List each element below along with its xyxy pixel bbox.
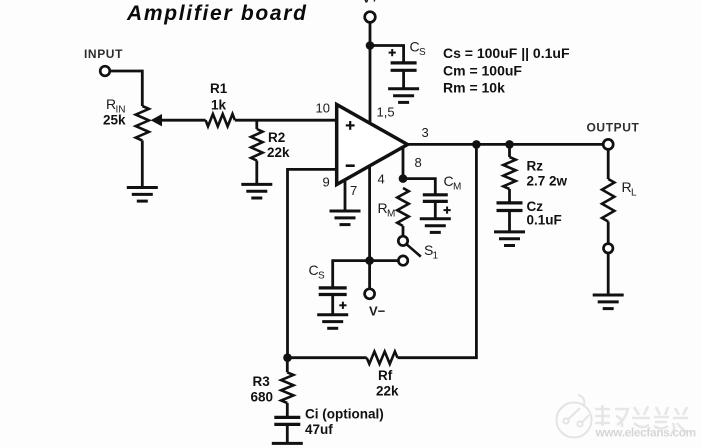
- capacitor Cz: [497, 203, 523, 211]
- potentiometer RIN body: [136, 106, 149, 141]
- junction R3: [283, 353, 292, 362]
- svg-text:R2: R2: [268, 130, 285, 145]
- svg-text:1k: 1k: [211, 98, 227, 113]
- svg-text:4: 4: [378, 172, 385, 187]
- switch S1 blade: [407, 244, 421, 256]
- svg-text:R1: R1: [210, 81, 228, 96]
- junction pin8 node: [399, 174, 408, 183]
- wire CS bottom to ground: [331, 295, 334, 315]
- watermark chinese text (approx strokes): [595, 405, 688, 434]
- wire junction to CS top: [370, 46, 404, 63]
- terminal OUTPUT: [603, 139, 613, 149]
- svg-text:Rm = 10k: Rm = 10k: [443, 80, 505, 96]
- wire R1 to opamp pin10: [235, 119, 337, 122]
- capacitor CM: [423, 195, 448, 202]
- capacitor CS (bottom): [319, 288, 347, 295]
- ground under RIN: [127, 188, 158, 202]
- resistor R1 body: [206, 114, 235, 126]
- resistor R3 body: [281, 372, 293, 403]
- ground under CS bottom: [317, 315, 348, 329]
- wire pin8 down: [402, 147, 405, 179]
- svg-text:8: 8: [415, 155, 422, 170]
- junction V+ / CS: [366, 41, 375, 50]
- wire feedback bottom left: [288, 356, 367, 359]
- svg-text:10: 10: [316, 101, 330, 116]
- svg-text:S: S: [318, 271, 325, 282]
- op-amp U1 body: [337, 105, 408, 185]
- terminal RL bottom: [604, 244, 613, 253]
- svg-text:L: L: [631, 188, 637, 199]
- resistor RL body: [602, 179, 614, 222]
- resistor Rz body: [503, 157, 515, 189]
- svg-text:www.elecfans.com: www.elecfans.com: [595, 426, 696, 440]
- svg-text:R3: R3: [253, 374, 271, 389]
- wire pin8 node to CM: [403, 179, 435, 195]
- wire node to CS bottom: [333, 261, 370, 288]
- ground under RL: [593, 295, 624, 309]
- wire RM to switch: [402, 226, 405, 236]
- svg-text:Cm = 100uF: Cm = 100uF: [443, 63, 522, 79]
- ground under CM: [420, 219, 451, 233]
- CM plus mark: [444, 207, 451, 214]
- ground under Ci (clipped): [272, 442, 303, 445]
- resistor R2 body: [251, 129, 263, 161]
- wire output to RL: [607, 149, 610, 179]
- svg-text:Ci (optional): Ci (optional): [305, 407, 384, 422]
- svg-text:S: S: [419, 47, 426, 58]
- ground under CS top: [388, 89, 419, 103]
- svg-text:Rf: Rf: [378, 368, 393, 383]
- wire Rz top: [508, 144, 511, 157]
- svg-text:22k: 22k: [267, 145, 290, 160]
- svg-text:M: M: [387, 209, 395, 220]
- wire pin7 to ground: [344, 180, 347, 211]
- svg-text:3: 3: [422, 125, 429, 140]
- switch S1 top contact: [398, 236, 407, 245]
- ground under R2: [241, 184, 272, 198]
- wire R2 to ground: [255, 161, 258, 185]
- wire CS to ground: [402, 70, 405, 89]
- svg-text:Amplifier board: Amplifier board: [126, 2, 308, 25]
- wire terminal to ground: [607, 253, 610, 295]
- wire R3 to Ci: [286, 403, 289, 417]
- svg-text:Rz: Rz: [527, 159, 544, 174]
- svg-text:47uf: 47uf: [305, 422, 333, 437]
- svg-text:0.1uF: 0.1uF: [527, 213, 562, 228]
- svg-text:INPUT: INPUT: [84, 47, 123, 61]
- potentiometer RIN wiper arrow: [151, 114, 162, 126]
- svg-text:9: 9: [323, 175, 330, 190]
- svg-text:M: M: [453, 182, 461, 193]
- wire RIN to ground: [141, 141, 144, 188]
- wire pin4 down: [368, 166, 371, 289]
- ground under pin 7: [330, 211, 361, 225]
- wire node to R2: [255, 120, 258, 129]
- wire feedback bottom right: [398, 144, 477, 357]
- CS bottom plus mark: [339, 302, 346, 309]
- wire CM to ground: [434, 201, 437, 218]
- svg-text:V−: V−: [369, 304, 386, 319]
- wire opamp output pin3: [405, 143, 603, 146]
- terminal V-: [365, 289, 375, 299]
- junction feedback: [472, 140, 481, 149]
- ground under Cz: [494, 232, 525, 246]
- wire RL to terminal: [607, 222, 610, 244]
- capacitor Ci: [274, 417, 300, 424]
- terminal INPUT: [100, 66, 110, 76]
- svg-text:1: 1: [433, 251, 439, 262]
- wire V+ to opamp pin 1,5: [369, 22, 372, 123]
- wire Rz to Cz: [508, 189, 511, 203]
- wire wiper to R1: [161, 119, 206, 122]
- op-amp minus input mark: [346, 164, 355, 167]
- wire Ci to ground: [286, 424, 289, 443]
- capacitor CS (top): [391, 63, 417, 70]
- wire node to S1: [370, 259, 399, 262]
- svg-text:Cs = 100uF || 0.1uF: Cs = 100uF || 0.1uF: [443, 45, 570, 61]
- wire input to RIN: [110, 71, 143, 106]
- watermark logo circle: [557, 395, 592, 438]
- CS plus mark: [389, 49, 396, 56]
- op-amp plus input mark: [346, 121, 355, 130]
- wire Cz to ground: [508, 211, 511, 232]
- junction pin4 node: [365, 256, 374, 265]
- wire pin9 feedback: [288, 169, 337, 357]
- svg-text:OUTPUT: OUTPUT: [587, 121, 640, 135]
- svg-text:2.7 2w: 2.7 2w: [527, 174, 568, 189]
- resistor RM body: [397, 188, 409, 226]
- terminal V+: [365, 12, 376, 23]
- svg-text:680: 680: [251, 390, 274, 405]
- wire R3 top: [286, 358, 289, 373]
- svg-text:25k: 25k: [103, 113, 126, 128]
- svg-text:22k: 22k: [376, 384, 399, 399]
- junction Rz: [505, 140, 514, 149]
- svg-text:7: 7: [350, 183, 357, 198]
- switch S1 bottom contact: [398, 256, 407, 265]
- svg-text:V+: V+: [362, 0, 379, 6]
- svg-text:1,5: 1,5: [377, 105, 395, 120]
- resistor Rf body: [367, 352, 398, 364]
